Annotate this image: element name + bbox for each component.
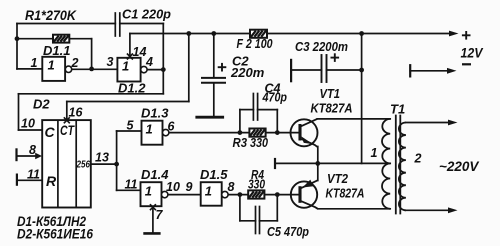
svg-text:C5 470p: C5 470p [267, 224, 309, 239]
svg-text:R1*270K: R1*270K [25, 8, 77, 23]
svg-text:1: 1 [31, 56, 38, 70]
svg-text:1: 1 [371, 146, 378, 160]
svg-text:D1.4: D1.4 [141, 167, 169, 182]
svg-text:D1.2: D1.2 [118, 81, 146, 96]
svg-text:11: 11 [125, 178, 138, 192]
svg-text:3: 3 [107, 55, 114, 69]
svg-text:C1 220p: C1 220p [122, 7, 171, 22]
svg-text:D1.3: D1.3 [141, 106, 169, 121]
svg-text:330: 330 [250, 136, 268, 150]
svg-text:5: 5 [127, 119, 135, 133]
svg-text:6: 6 [168, 120, 176, 134]
svg-text:KT827A: KT827A [326, 186, 365, 201]
svg-text:14: 14 [133, 45, 147, 59]
svg-text:R3: R3 [233, 136, 248, 150]
svg-text:1: 1 [145, 184, 152, 199]
svg-text:10: 10 [166, 180, 180, 194]
svg-text:T1: T1 [390, 102, 405, 117]
svg-text:D1.1: D1.1 [43, 43, 70, 58]
svg-text:KT827A: KT827A [311, 101, 353, 116]
svg-text:9: 9 [186, 180, 193, 194]
svg-text:VT1: VT1 [320, 86, 341, 101]
svg-text:10: 10 [21, 117, 35, 131]
svg-text:8: 8 [228, 180, 235, 194]
svg-text:1: 1 [205, 184, 212, 199]
svg-text:1: 1 [146, 122, 153, 137]
svg-text:~220V: ~220V [439, 159, 479, 174]
svg-text:2: 2 [414, 152, 422, 166]
svg-text:16: 16 [69, 106, 84, 120]
svg-text:D1.5: D1.5 [200, 167, 228, 182]
svg-text:C: C [45, 124, 56, 140]
svg-text:13: 13 [95, 151, 109, 165]
svg-text:D2-К561ИЕ16: D2-К561ИЕ16 [17, 226, 93, 242]
svg-text:R: R [46, 173, 57, 189]
svg-text:11: 11 [27, 168, 40, 182]
svg-text:330: 330 [248, 178, 265, 192]
svg-text:D2: D2 [33, 97, 50, 112]
svg-text:220m: 220m [230, 65, 265, 80]
svg-text:1: 1 [48, 58, 55, 73]
svg-text:8: 8 [29, 143, 36, 157]
svg-text:12V: 12V [461, 46, 484, 61]
svg-text:7: 7 [156, 208, 164, 222]
svg-text:F 2 100: F 2 100 [237, 37, 273, 51]
svg-text:VT2: VT2 [327, 171, 349, 186]
svg-text:256: 256 [76, 159, 90, 171]
svg-text:1: 1 [122, 59, 129, 74]
svg-text:2: 2 [71, 56, 79, 70]
svg-text:C3 2200m: C3 2200m [295, 39, 348, 54]
svg-text:CT: CT [60, 122, 75, 138]
svg-text:470p: 470p [262, 91, 288, 105]
